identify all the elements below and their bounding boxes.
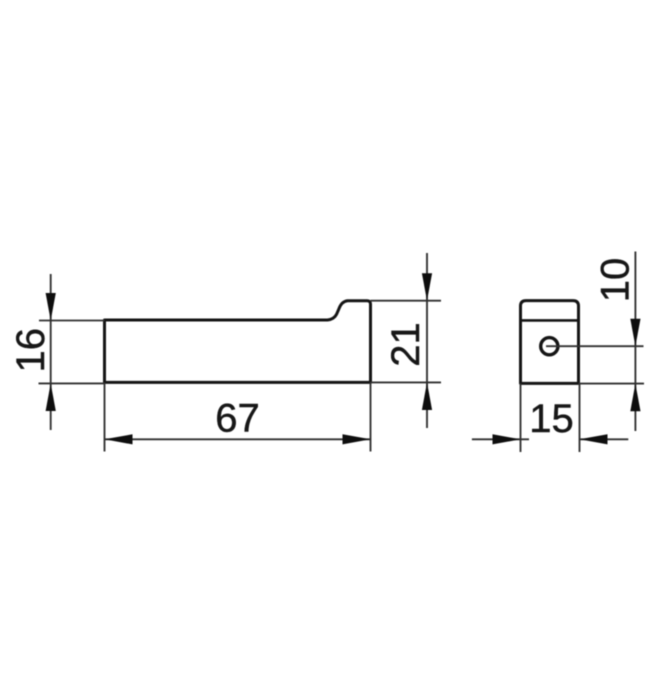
- dim 21: dimension line: [426, 253, 428, 428]
- dim 67: arrow right: [343, 434, 371, 444]
- dim 15: arrow pointing left: [580, 434, 608, 444]
- dim 16: extension line top: [39, 320, 105, 322]
- dim 10: center line from hole: [546, 345, 644, 347]
- dim 67: arrow left: [105, 434, 133, 444]
- dim 10: arrow down: [630, 319, 640, 347]
- dim 15: arrow pointing right: [493, 434, 521, 444]
- end view: step line: [521, 319, 579, 322]
- dim 15: dimension line right segment: [580, 438, 629, 440]
- dim 15: dimension line left segment: [472, 438, 529, 440]
- end view: screw hole: [541, 338, 558, 355]
- dim 15: extension line right: [579, 383, 581, 452]
- part outline: side view of hook: [105, 301, 371, 383]
- svg-text:21: 21: [384, 322, 428, 367]
- svg-text:15: 15: [529, 397, 574, 441]
- dim 16: arrow down: [46, 293, 56, 321]
- dim 10: dimension line: [634, 252, 636, 432]
- dim 16: extension line bottom: [39, 382, 105, 384]
- dim 10: arrow up: [630, 384, 640, 412]
- dim 21: arrow up: [422, 382, 432, 410]
- dim 67: dimension line: [105, 438, 371, 440]
- dim 21: extension line bottom: [371, 381, 442, 383]
- svg-text:16: 16: [9, 328, 53, 373]
- svg-text:67: 67: [215, 397, 260, 441]
- dim 21: extension line top: [371, 300, 442, 302]
- dim 21: arrow down: [422, 273, 432, 301]
- dim 67: extension line right: [370, 382, 372, 451]
- dim 10: extension line bottom: [579, 383, 645, 385]
- dim 67: extension line left: [104, 382, 106, 451]
- dim 15: extension line left: [520, 383, 522, 452]
- part outline: end view block: [521, 301, 579, 384]
- dim 16: dimension line: [50, 274, 52, 430]
- dim 16: arrow up: [46, 383, 56, 411]
- svg-text:10: 10: [594, 258, 638, 303]
